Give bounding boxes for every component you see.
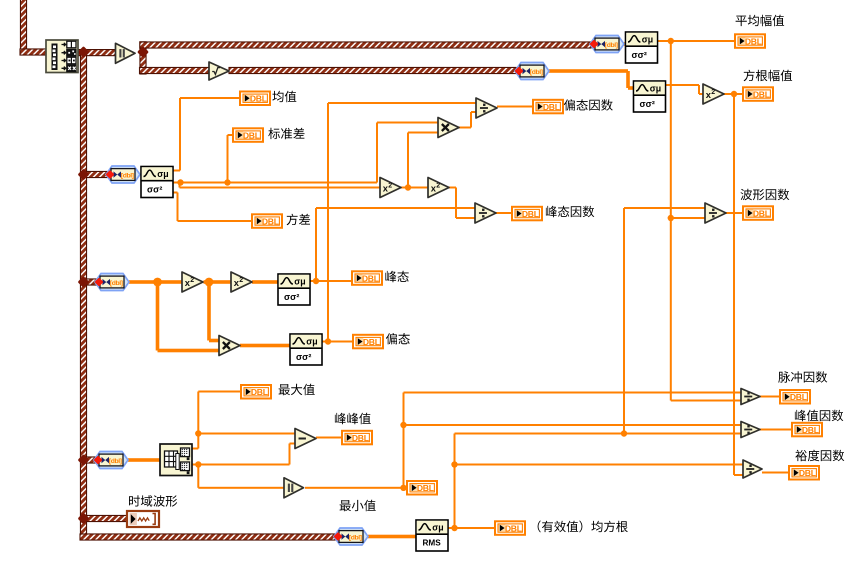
node Statistics sqrt-mean S4 bbox=[634, 81, 666, 112]
wire array C5 to stat4 bbox=[549, 69, 634, 90]
terminal indicator DBL 峰态 bbox=[352, 271, 382, 285]
label 波形因数 bbox=[741, 189, 790, 201]
terminal indicator DBL 偏态 bbox=[353, 335, 383, 349]
label 裕度因数 bbox=[795, 450, 844, 462]
label 峰值因数 bbox=[795, 410, 843, 422]
wire std-dev branch to 标准差 bbox=[227, 134, 233, 183]
wire variance to 方差 bbox=[173, 192, 252, 223]
junction min out bbox=[195, 461, 201, 467]
function multiply scalar bbox=[438, 118, 459, 138]
wire waveform abs-output branch up to top rail bbox=[140, 42, 591, 74]
wire divide-shape out to 波形因数 bbox=[726, 212, 742, 214]
wire x-squared-1 out to x-squared-2 bbox=[401, 187, 428, 189]
wire waveform from top edge to Get Waveform Components bbox=[20, 0, 46, 55]
wire stat4 out to x-squared bbox=[666, 84, 704, 95]
svg-text:[dbl]: [dbl] bbox=[109, 458, 122, 465]
junction mean-abs branch bbox=[668, 215, 674, 221]
svg-text:σσ²: σσ² bbox=[147, 185, 162, 195]
function x-squared scalar 1 bbox=[380, 178, 401, 198]
svg-text:DBL: DBL bbox=[790, 392, 807, 402]
label 偏态 bbox=[386, 333, 410, 344]
svg-text:σμ: σμ bbox=[294, 277, 305, 287]
terminal indicator DBL 峰峰值 bbox=[342, 431, 372, 445]
terminal indicator DBL 方根幅值 bbox=[743, 87, 773, 101]
svg-text:σμ: σμ bbox=[432, 523, 443, 533]
svg-text:σσ²: σσ² bbox=[296, 352, 311, 362]
junction waveform at abs output bbox=[137, 46, 149, 58]
terminal indicator DBL 平均幅值 bbox=[735, 34, 765, 48]
junction rms crest bbox=[621, 430, 627, 436]
svg-text:DBL: DBL bbox=[251, 387, 268, 397]
junction sigma2 branch bbox=[405, 184, 411, 190]
terminal indicator DBL 偏态因数 bbox=[533, 100, 563, 114]
wire rms branch to divide margin bbox=[455, 464, 744, 466]
svg-text:[dbl]: [dbl] bbox=[530, 69, 543, 76]
wire kurtosis up rail bbox=[315, 207, 475, 281]
svg-text:σμ: σμ bbox=[650, 84, 661, 94]
label 峰态 bbox=[385, 271, 408, 283]
wire abs-min out to indicator bbox=[305, 487, 406, 489]
svg-text:[dbl]: [dbl] bbox=[349, 535, 362, 542]
svg-text:DBL: DBL bbox=[522, 209, 539, 219]
terminal indicator DBL 最大值 bbox=[241, 385, 271, 399]
junction std-dev split bbox=[177, 179, 183, 185]
wire kurtosis stat out to 峰态 bbox=[310, 280, 351, 282]
wire array C2 to x-squared-a1 bbox=[129, 280, 182, 284]
svg-text:DBL: DBL bbox=[362, 273, 379, 283]
function divide 峰值因数 bbox=[741, 422, 760, 438]
wire waveform components-output to absolute-value bbox=[78, 50, 116, 56]
terminal indicator DBL 最小值-值 bbox=[407, 481, 437, 495]
function x-squared right bbox=[703, 84, 724, 104]
wire rms rail to divide shape upper bbox=[623, 207, 705, 434]
converter C2 to DBL array bbox=[94, 274, 129, 291]
function absolute-value A2 bbox=[284, 478, 304, 498]
terminal indicator DBL 均值 bbox=[240, 92, 270, 106]
label 均值 bbox=[272, 91, 296, 103]
label 方根幅值 bbox=[744, 70, 793, 82]
wire divide-impulse out bbox=[760, 396, 779, 398]
wire waveform sqrt-output to converter bbox=[229, 67, 516, 73]
wire array multiply out to skewness stat bbox=[240, 344, 290, 348]
wire min out bbox=[192, 443, 295, 466]
terminal indicator DBL 裕度因数 bbox=[789, 466, 819, 480]
label 脉冲因数 bbox=[778, 371, 827, 383]
wire divide-crest out bbox=[760, 429, 791, 431]
svg-text:DBL: DBL bbox=[745, 36, 762, 46]
wire divide-margin out bbox=[762, 472, 788, 474]
svg-text:σμ: σμ bbox=[306, 337, 317, 347]
svg-text:2: 2 bbox=[388, 183, 392, 190]
terminal indicator DBL 均方根 bbox=[495, 521, 525, 535]
wire mean-abs to 平均幅值 bbox=[658, 40, 735, 42]
svg-text:DBL: DBL bbox=[753, 208, 770, 218]
junction skewness rail bbox=[325, 338, 331, 344]
function x-squared array 2 bbox=[231, 272, 252, 292]
label （有效值）均方根 bbox=[538, 521, 628, 533]
node Statistics kurtosis S5 bbox=[278, 274, 310, 305]
wire sigma2 branch up to multiply bbox=[407, 132, 438, 188]
function subtract bbox=[295, 429, 316, 449]
junction rms out bbox=[451, 525, 457, 531]
wire divide-kurt out to 峰态因数 bbox=[496, 212, 511, 214]
label 方差 bbox=[287, 214, 311, 226]
node Get Waveform Components bbox=[46, 40, 78, 73]
node Statistics RMS bbox=[416, 520, 448, 551]
wire abs-min branch to divide crest bbox=[404, 424, 742, 426]
wire array C3 to max-min bbox=[128, 458, 160, 462]
svg-text:DBL: DBL bbox=[417, 483, 434, 493]
function divide 脉冲因数 bbox=[741, 389, 760, 405]
wire std-dev lower parallel bbox=[179, 183, 381, 189]
wire divide-skew out to 偏态因数 bbox=[497, 106, 532, 108]
wire rms out to 均方根 bbox=[447, 527, 494, 529]
junction rms margin branch bbox=[451, 461, 457, 467]
svg-text:2: 2 bbox=[190, 277, 194, 284]
svg-text:2: 2 bbox=[711, 89, 715, 96]
svg-text:DBL: DBL bbox=[802, 425, 819, 435]
wire sqrt-amp rail down bbox=[733, 94, 743, 476]
svg-text:[dbl]: [dbl] bbox=[605, 42, 618, 49]
svg-text:[dbl]: [dbl] bbox=[110, 280, 123, 287]
wire waveform stub to converter C1 bbox=[84, 171, 108, 177]
junction kurtosis rail bbox=[313, 278, 319, 284]
svg-text:DBL: DBL bbox=[250, 94, 267, 104]
function x-squared scalar 2 bbox=[428, 178, 449, 198]
terminal indicator DBL 方差 bbox=[252, 214, 282, 228]
svg-text:2: 2 bbox=[436, 183, 440, 190]
terminal indicator DBL 标准差 bbox=[233, 128, 263, 142]
junction mean-abs top bbox=[668, 38, 674, 44]
wire rms rail up bbox=[454, 433, 742, 529]
function divide 峰态因数 bbox=[475, 203, 496, 223]
junction waveform 时域波形 bbox=[78, 513, 90, 525]
wire std-dev main bbox=[173, 122, 439, 184]
node Statistics std-dev variance S1 bbox=[141, 167, 173, 198]
function divide 裕度因数 bbox=[743, 460, 762, 478]
junction waveform C2 bbox=[78, 276, 90, 288]
wire waveform left trunk down bbox=[80, 55, 335, 540]
junction array split 1 bbox=[153, 278, 162, 287]
converter C5 to DBL array bbox=[514, 63, 549, 80]
junction array split 2 bbox=[205, 278, 214, 287]
label 偏态因数 bbox=[564, 99, 613, 111]
terminal indicator DBL 脉冲因数 bbox=[780, 390, 810, 404]
label 标准差 bbox=[268, 128, 304, 140]
label 时域波形 bbox=[129, 495, 177, 507]
function divide 波形因数 bbox=[705, 203, 726, 223]
label 平均幅值 bbox=[736, 15, 785, 27]
wire array x-squared-a2 to kurtosis stat bbox=[252, 280, 278, 284]
label 最小值 bbox=[340, 500, 376, 512]
svg-text:σσ²: σσ² bbox=[284, 292, 299, 302]
svg-text:2: 2 bbox=[239, 277, 243, 284]
junction waveform at components output bbox=[78, 46, 90, 58]
wire mean-abs branch to divide shape bbox=[671, 217, 705, 219]
converter C6 to DBL array bbox=[589, 36, 624, 53]
junction abs-min out bbox=[400, 485, 406, 491]
svg-text:DBL: DBL bbox=[243, 130, 260, 140]
function x-squared array 1 bbox=[182, 272, 203, 292]
wire x-squared out to 方根幅值 bbox=[724, 93, 742, 95]
svg-text:DBL: DBL bbox=[799, 468, 816, 478]
svg-text:RMS: RMS bbox=[423, 539, 442, 548]
svg-text:DBL: DBL bbox=[352, 433, 369, 443]
svg-text:DBL: DBL bbox=[262, 216, 279, 226]
node Array Max and Min bbox=[160, 444, 192, 476]
wire array x-squared-a1 to x-squared-a2 bbox=[204, 280, 232, 284]
junction max branch bbox=[195, 430, 201, 436]
junction waveform C1 bbox=[78, 169, 90, 181]
wire max branch to subtract bbox=[198, 433, 295, 435]
wire array C6 to stat3 bbox=[622, 42, 626, 46]
junction abs-min crest branch bbox=[400, 422, 406, 428]
converter C1 to DBL array bbox=[105, 166, 140, 183]
junction waveform C3 bbox=[78, 454, 90, 466]
svg-text:DBL: DBL bbox=[505, 523, 522, 533]
junction sqrt-amp bbox=[731, 91, 737, 97]
junction std-dev branch bbox=[224, 179, 230, 185]
svg-text:DBL: DBL bbox=[753, 89, 770, 99]
wire mean-abs rail down bbox=[670, 41, 741, 402]
label 峰峰值 bbox=[335, 413, 371, 425]
function divide 偏态因数 bbox=[476, 98, 497, 118]
terminal indicator 时域波形 bbox=[127, 511, 159, 527]
wire array branch to multiply upper bbox=[207, 282, 219, 342]
terminal indicator DBL 峰值因数 bbox=[792, 423, 822, 437]
wire min branch to abs bbox=[197, 465, 284, 489]
label 最大值 bbox=[279, 384, 315, 396]
wire skewness stat out to 偏态 bbox=[322, 341, 352, 343]
wire waveform stub to converter C3 bbox=[84, 457, 96, 463]
wire abs-min rail up bbox=[403, 392, 742, 488]
svg-text:σμ: σμ bbox=[157, 169, 168, 179]
svg-text:σμ: σμ bbox=[642, 35, 653, 45]
wire x-squared-2 out to divide kurt bbox=[449, 187, 475, 220]
converter C3 to DBL array bbox=[93, 452, 128, 469]
function square-root bbox=[209, 62, 229, 80]
wire subtract out to 峰峰值 bbox=[316, 437, 341, 439]
svg-text:DBL: DBL bbox=[543, 102, 560, 112]
function absolute-value A1 bbox=[116, 43, 136, 63]
wire array C4 to rms bbox=[368, 535, 416, 539]
wire waveform stub to indicator 时域波形 bbox=[84, 515, 128, 521]
terminal indicator DBL 峰态因数 bbox=[512, 207, 542, 221]
wire array branch down to multiply lower bbox=[156, 282, 219, 352]
converter C4 to DBL array bbox=[333, 528, 368, 545]
svg-text:[dbl]: [dbl] bbox=[121, 173, 134, 180]
wire waveform stub to converter C2 bbox=[84, 279, 99, 285]
function multiply array bbox=[219, 336, 240, 356]
wire waveform abs-output down to sqrt bbox=[140, 67, 210, 73]
node Statistics mean-abs S3 bbox=[626, 32, 658, 63]
svg-text:DBL: DBL bbox=[363, 337, 380, 347]
svg-text:σσ²: σσ² bbox=[632, 50, 647, 60]
svg-text:σσ²: σσ² bbox=[640, 99, 655, 109]
label 峰态因数 bbox=[546, 206, 594, 218]
wire max out to 最大值 bbox=[192, 391, 240, 450]
node Statistics skewness S6 bbox=[290, 334, 322, 365]
wire multiply out to divide skew bbox=[458, 111, 476, 129]
wire skewness up rail bbox=[327, 102, 476, 342]
wire mean to 均值 bbox=[173, 97, 240, 172]
terminal indicator DBL 波形因数 bbox=[743, 206, 773, 220]
